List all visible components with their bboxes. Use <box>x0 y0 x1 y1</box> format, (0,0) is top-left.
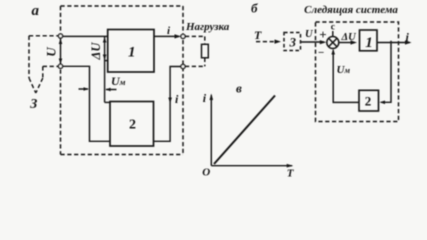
x axis <box>211 165 292 167</box>
svg-text:Нагрузка: Нагрузка <box>185 21 230 33</box>
svg-text:+: + <box>319 27 326 42</box>
svg-text:O: O <box>202 166 210 178</box>
load dashed loop <box>185 36 205 66</box>
outer dashed box (left figure) <box>61 6 184 155</box>
node top-left <box>58 34 62 38</box>
wire A node2 to box2 <box>63 66 111 141</box>
node right-bottom <box>181 64 185 68</box>
svg-text:2: 2 <box>365 93 372 108</box>
svg-text:З: З <box>29 97 37 112</box>
svg-text:в: в <box>236 81 242 96</box>
svg-text:−: − <box>318 47 324 59</box>
Uм annotation arrows <box>79 87 117 91</box>
load resistor <box>202 44 209 58</box>
wire B into box2 top <box>105 101 110 103</box>
svg-text:1: 1 <box>128 44 136 60</box>
svg-text:с: с <box>331 23 335 33</box>
output wire with arrow, label i <box>154 35 179 37</box>
probe З dashed outline <box>29 36 58 93</box>
svg-text:а: а <box>32 3 40 19</box>
svg-text:Следящая система: Следящая система <box>304 4 398 16</box>
stub to box1 lower input <box>105 60 108 62</box>
wire node1 to box1 <box>63 35 108 37</box>
box 3 dashed <box>284 33 301 51</box>
diagonal line <box>214 96 275 165</box>
svg-text:1: 1 <box>365 35 373 51</box>
right edge <box>182 6 184 155</box>
top edge <box>61 5 184 7</box>
wire box3 to summing circle <box>301 41 325 43</box>
ΔU annotation arrow <box>103 36 107 102</box>
box 2 (right figure) <box>359 90 379 111</box>
left edge lower <box>60 70 62 155</box>
Uм feedback wire up into circle <box>333 50 359 102</box>
wire circle to box1 <box>339 42 355 44</box>
y axis <box>210 95 212 166</box>
U annotation (double arrow between nodes) <box>59 38 63 65</box>
svg-text:Uм: Uм <box>337 64 351 76</box>
feedback tap down to box2 <box>381 41 391 103</box>
svg-text:U: U <box>43 47 58 57</box>
output wire with arrow, label i <box>377 42 410 44</box>
svg-text:б: б <box>251 1 258 16</box>
svg-text:ΔU: ΔU <box>341 32 358 43</box>
box 2 (left figure) <box>110 102 154 147</box>
right down wire into box2, label i <box>154 67 182 142</box>
svg-text:ΔU: ΔU <box>89 42 103 61</box>
svg-text:2: 2 <box>129 118 136 133</box>
svg-text:T: T <box>254 28 262 42</box>
left edge upper <box>60 6 62 33</box>
summing junction circle with X <box>327 37 339 49</box>
c input <box>332 31 334 37</box>
box 1 (left figure) <box>108 30 154 73</box>
dashed input arrow <box>256 41 278 43</box>
svg-text:3: 3 <box>289 35 297 50</box>
node bottom-left <box>58 64 62 68</box>
box 1 (right figure) <box>360 30 378 51</box>
node right-top <box>181 34 185 38</box>
outer dashed box (right figure) <box>316 22 399 122</box>
svg-text:Uм: Uм <box>111 74 126 88</box>
bottom edge <box>61 154 184 156</box>
